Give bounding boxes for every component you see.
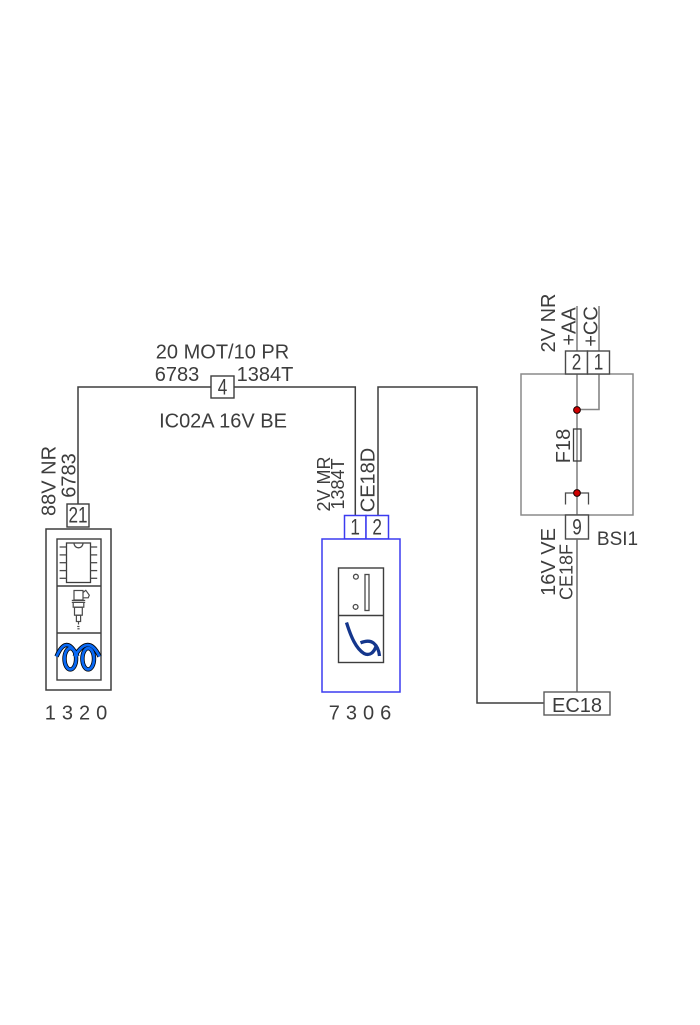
svg-text:CE18D: CE18D [357, 448, 379, 512]
curved arrow symbol in 7306 (blue) [347, 623, 380, 657]
splice EC18 box [544, 692, 610, 717]
svg-text:BSI1: BSI1 [597, 529, 638, 550]
internal wire from pin 1 to junction [577, 374, 599, 410]
component 1320 injector outer box [46, 529, 111, 690]
coil symbol in 1320 (blue) [57, 645, 100, 669]
injector nozzle symbol in 1320 [72, 590, 90, 629]
connector pin 21 of component 1320 [67, 504, 89, 529]
svg-text:6783: 6783 [155, 364, 200, 386]
junction dot lower [574, 490, 581, 497]
contact bracket symbol at lower junction [566, 493, 589, 505]
node 4 splice box [211, 376, 234, 401]
BSI1 box [521, 374, 633, 515]
svg-text:1: 1 [594, 351, 604, 376]
fuse F18 [574, 429, 582, 461]
junction dot upper [574, 407, 581, 414]
svg-text:2V NR: 2V NR [538, 294, 560, 353]
svg-text:7306: 7306 [329, 703, 398, 725]
IC chip symbol in 1320 [60, 543, 98, 583]
connector pin 2 of 7306 [366, 516, 389, 541]
svg-text:1320: 1320 [45, 703, 114, 725]
svg-text:2: 2 [372, 516, 382, 541]
svg-text:1384T: 1384T [237, 364, 294, 386]
svg-text:F18: F18 [553, 429, 575, 463]
component 7306 inner box with divider [339, 568, 384, 663]
svg-text:21: 21 [68, 504, 87, 529]
svg-text:EC18: EC18 [552, 695, 602, 717]
svg-text:1384T: 1384T [328, 458, 348, 509]
connector pin 9 of BSI1 [566, 515, 589, 540]
connector pin 1 of BSI1 [588, 351, 610, 376]
wire +CC above BSI1 pin 1 [598, 306, 600, 351]
component 1320 inner box with section dividers [57, 539, 101, 680]
wire 6783 from node 4 to connector 21 of 1320 [78, 387, 355, 516]
switch contact symbol in 7306 [353, 574, 369, 610]
wire CE18D from pin 2 of 7306 to splice EC18 [378, 387, 544, 703]
svg-text:88V NR: 88V NR [38, 446, 60, 516]
wire +AA above BSI1 pin 2 [576, 306, 578, 351]
wire CE18F from pin 9 to EC18 [576, 539, 578, 692]
connector pin 2 of BSI1 [566, 351, 588, 376]
svg-text:IC02A 16V BE: IC02A 16V BE [159, 411, 287, 433]
connector pin 1 of 7306 [345, 516, 367, 541]
svg-text:2: 2 [572, 351, 582, 376]
svg-text:6783: 6783 [59, 453, 81, 498]
svg-text:1: 1 [350, 516, 360, 541]
internal wire from pin 2 through fuse to pin 9 [576, 374, 578, 515]
svg-text:20 MOT/10 PR: 20 MOT/10 PR [156, 342, 289, 364]
svg-text:4: 4 [218, 376, 228, 401]
svg-text:CE18F: CE18F [557, 544, 577, 600]
svg-text:9: 9 [572, 516, 582, 541]
component 7306 outer box (blue) [322, 539, 400, 692]
